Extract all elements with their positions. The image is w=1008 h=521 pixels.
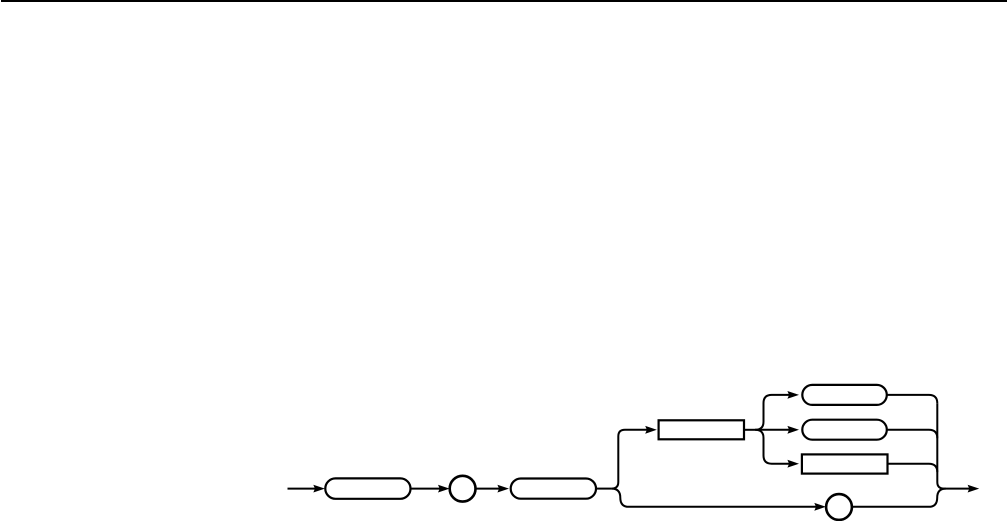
wire circle2 to merge up [852, 489, 946, 507]
top rule [1, 0, 1007, 2]
terminal rounded box top [802, 385, 887, 405]
wire mid rrect to merge [887, 430, 938, 438]
terminal circle 1 [450, 476, 476, 502]
arrowhead into bottom rect [787, 460, 799, 468]
wire split2 up [755, 395, 795, 430]
wire split2 straight [757, 429, 796, 431]
arrowhead into circle2 [814, 503, 826, 511]
wire circle1 to rrect2 [476, 488, 506, 490]
wire bottom rect to merge [888, 464, 938, 472]
nonterminal box 1 [659, 420, 744, 439]
terminal rounded box middle [802, 420, 887, 440]
arrowhead into rect1 [645, 426, 657, 434]
wire rrect1 to circle1 [411, 488, 447, 490]
arrowhead exit [968, 485, 980, 493]
arrowhead into mid rrect [787, 426, 799, 434]
arrowhead entry [313, 485, 325, 493]
wire split2 down [755, 430, 795, 464]
arrowhead into rrect2 [497, 485, 509, 493]
nonterminal box bottom [802, 454, 888, 473]
arrowhead into top rrect [787, 391, 799, 399]
wire branch up to rect1 [612, 430, 653, 489]
terminal rounded box 1 [325, 478, 410, 498]
wire bypass down [612, 489, 822, 507]
wire top rrect to merge [887, 395, 938, 403]
terminal circle 2 [826, 494, 852, 520]
terminal rounded box 2 [511, 479, 596, 499]
wire rect1 to split2 [744, 429, 757, 431]
wire entry [288, 488, 322, 490]
wire rrect2 to split [596, 488, 612, 490]
wire merge vertical and exit [937, 403, 975, 488]
arrowhead into circle1 [438, 485, 450, 493]
